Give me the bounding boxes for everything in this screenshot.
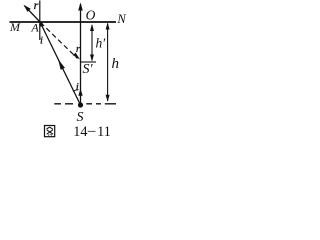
svg-text:11: 11 [97,124,111,140]
svg-text:14: 14 [73,124,87,140]
svg-text:A: A [30,21,39,35]
svg-text:S: S [77,110,84,125]
svg-text:O: O [86,8,96,23]
svg-text:i: i [76,81,79,93]
svg-text:M: M [9,20,21,34]
svg-text:h′: h′ [96,36,107,51]
svg-text:r: r [34,0,39,12]
svg-text:h: h [112,56,120,72]
svg-text:i: i [40,36,43,47]
svg-text:r: r [76,43,81,55]
svg-text:S′: S′ [83,62,94,77]
svg-text:N: N [116,12,126,26]
svg-text:–: – [87,123,96,139]
